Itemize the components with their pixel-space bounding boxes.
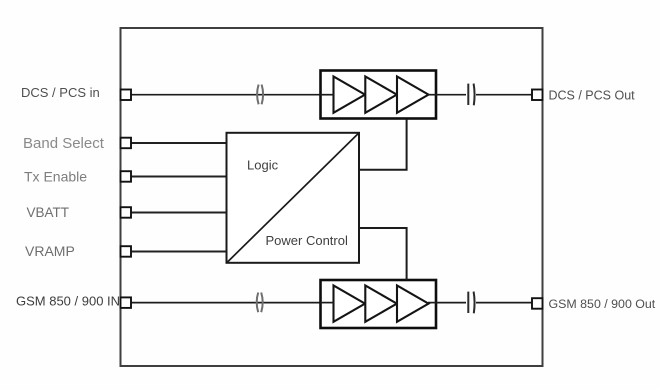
wire: DCS amp to C2 — [437, 94, 467, 96]
svg-text:VBATT: VBATT — [27, 205, 70, 220]
amp stage A3 — [397, 77, 429, 113]
svg-text:VRAMP: VRAMP — [25, 243, 75, 259]
amp stage A2 — [365, 77, 397, 113]
wire: inside U2 exit stub — [428, 302, 437, 304]
pin: Tx Enable — [121, 171, 132, 182]
svg-text:DCS / PCS Out: DCS / PCS Out — [549, 88, 636, 102]
svg-text:Power Control: Power Control — [266, 233, 348, 248]
chip outline box — [121, 28, 543, 366]
capacitor C4 (GSM output DC block) — [468, 292, 474, 314]
wire: inside U1 exit stub — [428, 94, 437, 96]
amp stage A6 — [397, 286, 429, 322]
svg-text:Tx Enable: Tx Enable — [24, 168, 87, 184]
amp stage A4 — [334, 286, 366, 322]
wire: C2 to DCS output pin — [476, 94, 532, 96]
pin: GSM 850/900 IN — [121, 297, 132, 308]
svg-text:DCS / PCS in: DCS / PCS in — [21, 85, 100, 100]
logic / power control block U3 — [227, 133, 360, 263]
svg-text:Logic: Logic — [247, 158, 279, 173]
wire: VBATT to logic — [131, 212, 227, 214]
pin: GSM 850/900 Out — [532, 298, 543, 309]
wire: Tx Enable to logic — [131, 176, 227, 178]
capacitor C3 (GSM input DC block) — [257, 293, 263, 313]
capacitor C1 (DCS input DC block) — [257, 85, 263, 105]
amp stage A1 — [334, 77, 366, 113]
wire: DCS/PCS input line — [131, 94, 333, 96]
svg-text:GSM 850 / 900 IN: GSM 850 / 900 IN — [16, 294, 120, 309]
wire: GSM input line — [131, 302, 333, 304]
pin: VRAMP — [121, 246, 132, 257]
wire: GSM amp to C4 — [437, 302, 467, 304]
amplifier chain U1 (DCS/PCS PA, 3 stages) — [321, 71, 437, 119]
wire: inside U2 entry stub — [320, 302, 334, 304]
pin: Band Select — [121, 138, 132, 149]
wire: power control to GSM amp — [359, 228, 407, 280]
wire: inside U1 entry stub — [320, 94, 334, 96]
pin: DCS/PCS Out — [532, 90, 543, 101]
svg-text:Band Select: Band Select — [23, 135, 105, 152]
amplifier chain U2 (GSM PA, 3 stages) — [321, 280, 437, 328]
capacitor C2 (DCS output DC block) — [468, 84, 474, 106]
wire: Band Select to logic — [131, 142, 227, 144]
wire: C4 to GSM output pin — [476, 302, 532, 304]
amp stage A5 — [365, 286, 397, 322]
pin: DCS/PCS in — [121, 90, 132, 101]
wire: VRAMP to logic — [131, 251, 227, 253]
wire: power control to DCS amp — [359, 119, 407, 170]
svg-text:GSM 850 / 900 Out: GSM 850 / 900 Out — [549, 297, 656, 311]
pin: VBATT — [121, 207, 132, 218]
